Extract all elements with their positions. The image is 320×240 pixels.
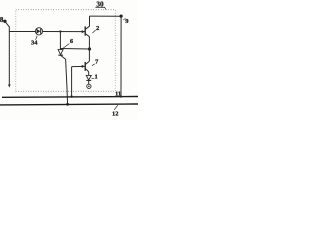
pin 8 terminal dot [3,20,6,23]
zener diode 1 [86,75,91,80]
label 7 [92,58,99,65]
label 30 [95,1,106,10]
wire: main input y=31.5 right of 34 [43,31,86,33]
svg-text:34: 34 [31,39,38,46]
node: pin 9 wire on rail 11 [120,96,122,98]
node: branch junction on main wire [59,30,61,32]
wire: main input y=31.5 left of 34 [9,31,35,33]
wire: top wire to pin 9 [90,15,122,17]
wire: link from diode 6 anode to emitter of 2 [60,48,89,51]
svg-text:12: 12 [112,111,118,118]
label 1 [92,74,98,81]
wire: branch drop to diode 6 [59,32,61,50]
label 2 [92,25,100,33]
rail line 11 [2,96,138,99]
wire: pin 9 drop to rail 11 [120,16,122,96]
diode 34 (circled) [35,28,42,35]
wire: base branch of 7 down to rail 11 [71,67,73,97]
transistor 7 [82,61,90,71]
label 6 [63,38,74,49]
node: base wire of 7 on rail 11 [70,95,72,97]
label 34 [31,36,38,47]
rail line 12 [0,103,138,106]
diode 6 [58,50,63,56]
label 11 [114,91,121,98]
node: junction emitter 2 / link wire [88,47,91,50]
pad terminal below zener [87,84,91,88]
transistor 2 [82,26,90,37]
wire: emitter of 7 down to zener 1 [88,72,90,76]
label 9 [123,18,129,25]
IC package dashed border 30 [16,10,116,92]
pin 8 external drop wire with arrow [8,27,10,86]
wire: zener 1 to pad [88,81,90,85]
pin 8 lead [6,23,9,27]
wire: diode 6 cathode down to rail 12 [61,55,68,104]
label 12 [112,105,118,118]
node: diode 6 wire on rail 12 [66,103,69,106]
pin 9 terminal dot [120,15,123,18]
svg-text:1: 1 [95,74,98,81]
wire: collector of 2 up [89,16,91,26]
svg-text:8: 8 [0,16,4,24]
wire: base of 7 from left [72,65,86,67]
wire: emitter of 2 down [88,37,90,62]
